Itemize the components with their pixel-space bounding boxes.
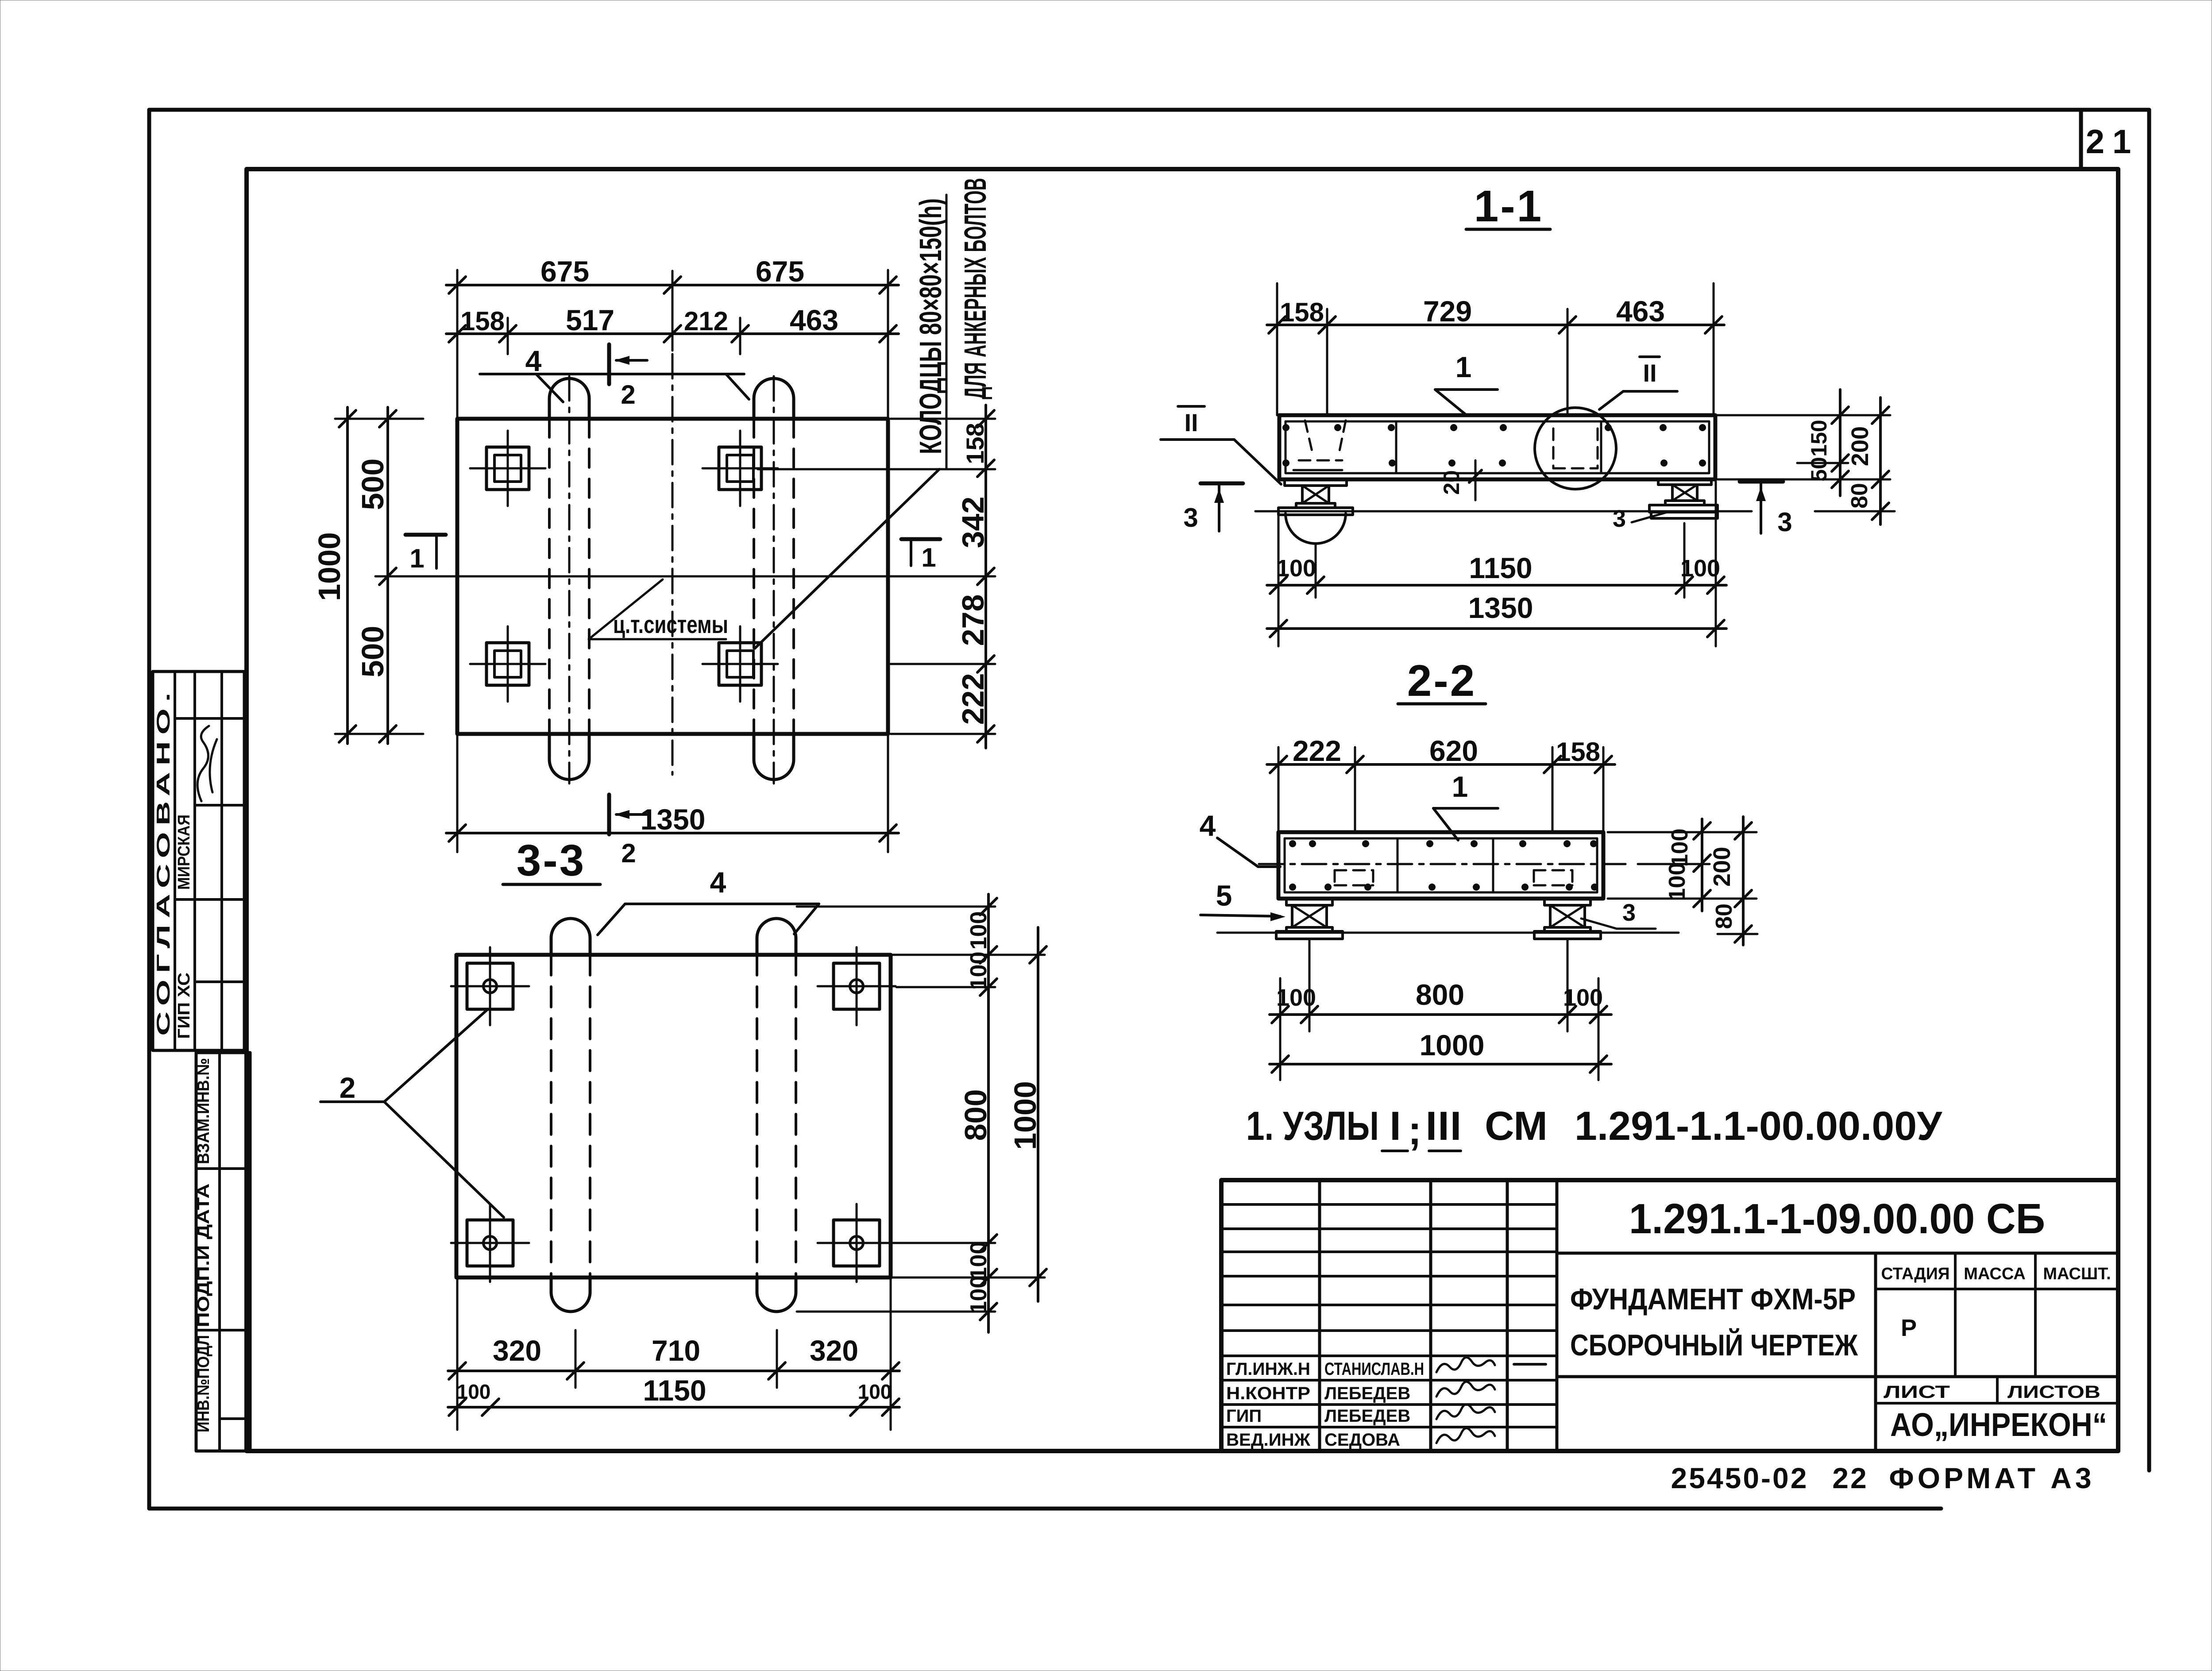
svg-text:21: 21 xyxy=(2086,123,2139,161)
svg-text:320: 320 xyxy=(493,1334,541,1367)
svg-text:800: 800 xyxy=(1416,978,1464,1011)
svg-text:342: 342 xyxy=(956,497,990,548)
svg-text:II: II xyxy=(1643,359,1656,387)
svg-text:ЛИСТОВ: ЛИСТОВ xyxy=(2007,1382,2100,1402)
svg-text:1000: 1000 xyxy=(312,532,347,601)
svg-text:3-3: 3-3 xyxy=(517,836,586,885)
svg-text:100: 100 xyxy=(966,1242,992,1280)
svg-text:100: 100 xyxy=(1667,829,1693,867)
svg-text:ПОДП.И ДАТА: ПОДП.И ДАТА xyxy=(194,1184,213,1328)
svg-text:800: 800 xyxy=(958,1089,993,1141)
svg-text:100: 100 xyxy=(1563,984,1603,1011)
svg-text:320: 320 xyxy=(810,1334,858,1367)
svg-text:22: 22 xyxy=(1832,1462,1868,1494)
svg-text:III: III xyxy=(1426,1104,1463,1149)
svg-text:517: 517 xyxy=(566,304,614,336)
svg-text:150: 150 xyxy=(1807,420,1831,456)
svg-text:ВЕД.ИНЖ: ВЕД.ИНЖ xyxy=(1226,1430,1311,1450)
svg-text:463: 463 xyxy=(790,304,838,336)
svg-text:20: 20 xyxy=(1439,470,1464,495)
svg-text:МАССА: МАССА xyxy=(1964,1265,2026,1283)
svg-text:СЕДОВА: СЕДОВА xyxy=(1324,1430,1400,1450)
svg-text:ДЛЯ АНКЕРНЫХ БОЛТОВ: ДЛЯ АНКЕРНЫХ БОЛТОВ xyxy=(958,178,992,399)
svg-text:158: 158 xyxy=(1556,737,1600,767)
svg-text:Н.КОНТР: Н.КОНТР xyxy=(1226,1384,1310,1403)
svg-text:158: 158 xyxy=(460,306,505,336)
svg-text:СБОРОЧНЫЙ ЧЕРТЕЖ: СБОРОЧНЫЙ ЧЕРТЕЖ xyxy=(1570,1328,1858,1362)
svg-text:222: 222 xyxy=(956,673,990,725)
svg-text:675: 675 xyxy=(756,255,804,288)
svg-text:Р: Р xyxy=(1901,1315,1917,1341)
svg-text:I: I xyxy=(1390,1104,1401,1149)
svg-text:1.291-1.1-00.00.00У: 1.291-1.1-00.00.00У xyxy=(1575,1104,1943,1149)
svg-text:100: 100 xyxy=(966,911,992,950)
svg-text:500: 500 xyxy=(355,626,390,678)
svg-text:3: 3 xyxy=(1183,503,1198,533)
svg-text:100: 100 xyxy=(966,952,992,990)
svg-text:3: 3 xyxy=(1622,899,1636,926)
svg-text:200: 200 xyxy=(1709,847,1735,887)
svg-text:100: 100 xyxy=(1680,555,1720,582)
svg-text:100: 100 xyxy=(1276,984,1316,1011)
svg-text:100: 100 xyxy=(1276,555,1316,582)
svg-text:4: 4 xyxy=(710,866,726,899)
svg-text:ФУНДАМЕНТ ФХМ-5Р: ФУНДАМЕНТ ФХМ-5Р xyxy=(1570,1282,1856,1316)
svg-text:620: 620 xyxy=(1429,734,1478,767)
svg-text:4: 4 xyxy=(525,344,542,377)
svg-text:212: 212 xyxy=(684,306,728,336)
svg-text:1: 1 xyxy=(921,543,936,572)
svg-text:3: 3 xyxy=(1613,506,1626,532)
svg-text:1: 1 xyxy=(409,544,424,573)
svg-text:729: 729 xyxy=(1423,295,1472,328)
svg-text:500: 500 xyxy=(355,459,390,510)
svg-text:100: 100 xyxy=(1664,863,1690,901)
svg-text:5: 5 xyxy=(1216,879,1232,912)
svg-text:МАСШТ.: МАСШТ. xyxy=(2043,1265,2111,1283)
svg-text:158: 158 xyxy=(961,423,989,464)
svg-text:4: 4 xyxy=(1200,809,1216,842)
svg-text:100: 100 xyxy=(858,1380,892,1403)
svg-text:3: 3 xyxy=(1777,507,1792,537)
svg-text:ФОРМАТ А3: ФОРМАТ А3 xyxy=(1889,1462,2095,1494)
svg-text:2: 2 xyxy=(621,838,636,868)
svg-text:675: 675 xyxy=(540,255,589,288)
svg-text:710: 710 xyxy=(652,1334,700,1367)
svg-text:II: II xyxy=(1184,409,1198,436)
svg-text:2: 2 xyxy=(340,1071,356,1104)
svg-text:100: 100 xyxy=(457,1380,491,1403)
svg-text:СОГЛАСОВАНО.: СОГЛАСОВАНО. xyxy=(153,686,174,1036)
svg-text:1-1: 1-1 xyxy=(1474,181,1544,231)
svg-text:ГЛ.ИНЖ.Н: ГЛ.ИНЖ.Н xyxy=(1226,1359,1310,1379)
svg-text:СТАНИСЛАВ.Н: СТАНИСЛАВ.Н xyxy=(1324,1359,1424,1379)
svg-text:СТАДИЯ: СТАДИЯ xyxy=(1881,1265,1950,1283)
svg-text:ЛЕБЕДЕВ: ЛЕБЕДЕВ xyxy=(1324,1406,1410,1426)
svg-text:100: 100 xyxy=(966,1276,992,1314)
svg-text:1: 1 xyxy=(1452,770,1468,803)
svg-text:1000: 1000 xyxy=(1008,1081,1042,1150)
svg-text:2: 2 xyxy=(621,380,635,409)
svg-text:1000: 1000 xyxy=(1420,1029,1485,1061)
svg-text:50: 50 xyxy=(1807,457,1831,482)
svg-text:;: ; xyxy=(1408,1108,1422,1153)
svg-text:200: 200 xyxy=(1847,426,1873,466)
svg-text:1350: 1350 xyxy=(641,803,706,836)
svg-text:1150: 1150 xyxy=(643,1374,706,1407)
svg-text:ЛЕБЕДЕВ: ЛЕБЕДЕВ xyxy=(1324,1384,1410,1403)
svg-text:АО„ИНРЕКОН“: АО„ИНРЕКОН“ xyxy=(1890,1406,2107,1443)
svg-text:1350: 1350 xyxy=(1468,591,1533,624)
svg-text:2-2: 2-2 xyxy=(1407,656,1477,706)
svg-text:ГИП: ГИП xyxy=(1226,1406,1262,1426)
svg-text:ИНВ.№ПОДЛ: ИНВ.№ПОДЛ xyxy=(194,1335,213,1432)
svg-text:1.291.1-1-09.00.00 СБ: 1.291.1-1-09.00.00 СБ xyxy=(1629,1195,2045,1243)
svg-text:КОЛОДЦЫ 80×80×150(h): КОЛОДЦЫ 80×80×150(h) xyxy=(913,198,948,454)
svg-text:1. УЗЛЫ: 1. УЗЛЫ xyxy=(1246,1104,1379,1149)
svg-text:ц.т.системы: ц.т.системы xyxy=(613,610,728,638)
svg-text:80: 80 xyxy=(1711,903,1737,929)
svg-text:ГИП ХС: ГИП ХС xyxy=(175,972,193,1039)
svg-text:80: 80 xyxy=(1847,483,1872,509)
svg-text:МИРСКАЯ: МИРСКАЯ xyxy=(175,814,193,890)
svg-text:222: 222 xyxy=(1293,734,1341,767)
svg-text:ВЗАМ.ИНВ.№: ВЗАМ.ИНВ.№ xyxy=(194,1058,213,1164)
svg-text:158: 158 xyxy=(1280,297,1324,327)
svg-text:ЛИСТ: ЛИСТ xyxy=(1884,1382,1950,1402)
svg-text:1: 1 xyxy=(1455,351,1472,383)
svg-text:25450-02: 25450-02 xyxy=(1671,1462,1809,1494)
svg-text:278: 278 xyxy=(956,594,990,646)
svg-text:463: 463 xyxy=(1616,295,1665,328)
svg-text:СМ: СМ xyxy=(1485,1104,1548,1149)
svg-text:1150: 1150 xyxy=(1469,552,1532,584)
